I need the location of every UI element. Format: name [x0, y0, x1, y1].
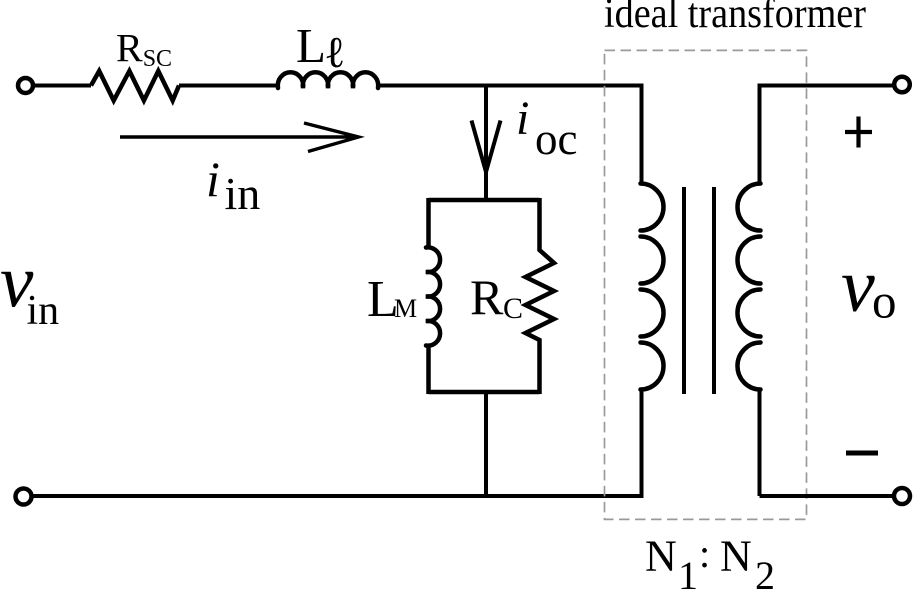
shunt box bottom edge	[429, 390, 540, 395]
wire box to bottom	[484, 392, 488, 496]
wire bottom	[33, 494, 644, 498]
inductor LM branch	[426, 198, 431, 247]
terminal output top	[894, 77, 910, 93]
shunt box top edge	[429, 198, 540, 203]
wire top-left	[34, 84, 91, 88]
wire secondary top	[760, 84, 894, 88]
svg-text:v: v	[841, 244, 875, 328]
svg-text:ideal transformer: ideal transformer	[604, 0, 866, 37]
transformer core	[682, 187, 686, 394]
svg-text:i: i	[206, 151, 220, 207]
svg-text::: :	[699, 531, 710, 576]
svg-text:N: N	[645, 532, 677, 581]
plus sign	[845, 117, 872, 148]
dashed ideal transformer box	[605, 50, 807, 519]
svg-text:C: C	[503, 292, 523, 325]
svg-text:N: N	[720, 532, 752, 581]
wire between RSC and Ll	[179, 84, 277, 88]
transformer primary winding	[640, 84, 644, 185]
arrow i_in	[120, 123, 359, 152]
wire secondary bottom	[760, 494, 894, 498]
svg-text:o: o	[872, 274, 897, 329]
terminal output bottom	[894, 488, 910, 504]
svg-text:M: M	[394, 294, 417, 323]
resistor RSC	[91, 71, 179, 101]
svg-text:1: 1	[678, 553, 698, 593]
wire Ll to transformer	[379, 84, 644, 88]
transformer secondary winding	[758, 84, 762, 185]
svg-text:oc: oc	[535, 114, 577, 164]
svg-text:in: in	[225, 168, 261, 219]
wire shunt drop	[484, 86, 488, 201]
svg-text:in: in	[27, 288, 60, 334]
resistor RC branch	[526, 198, 555, 394]
svg-text:2: 2	[755, 553, 775, 593]
svg-text:R: R	[470, 269, 504, 325]
terminal input bottom	[16, 489, 32, 505]
inductor Ll	[278, 72, 378, 88]
minus sign	[846, 451, 878, 456]
terminal input top	[18, 78, 33, 93]
svg-text:i: i	[516, 92, 529, 145]
arrow i_oc head	[472, 121, 501, 173]
